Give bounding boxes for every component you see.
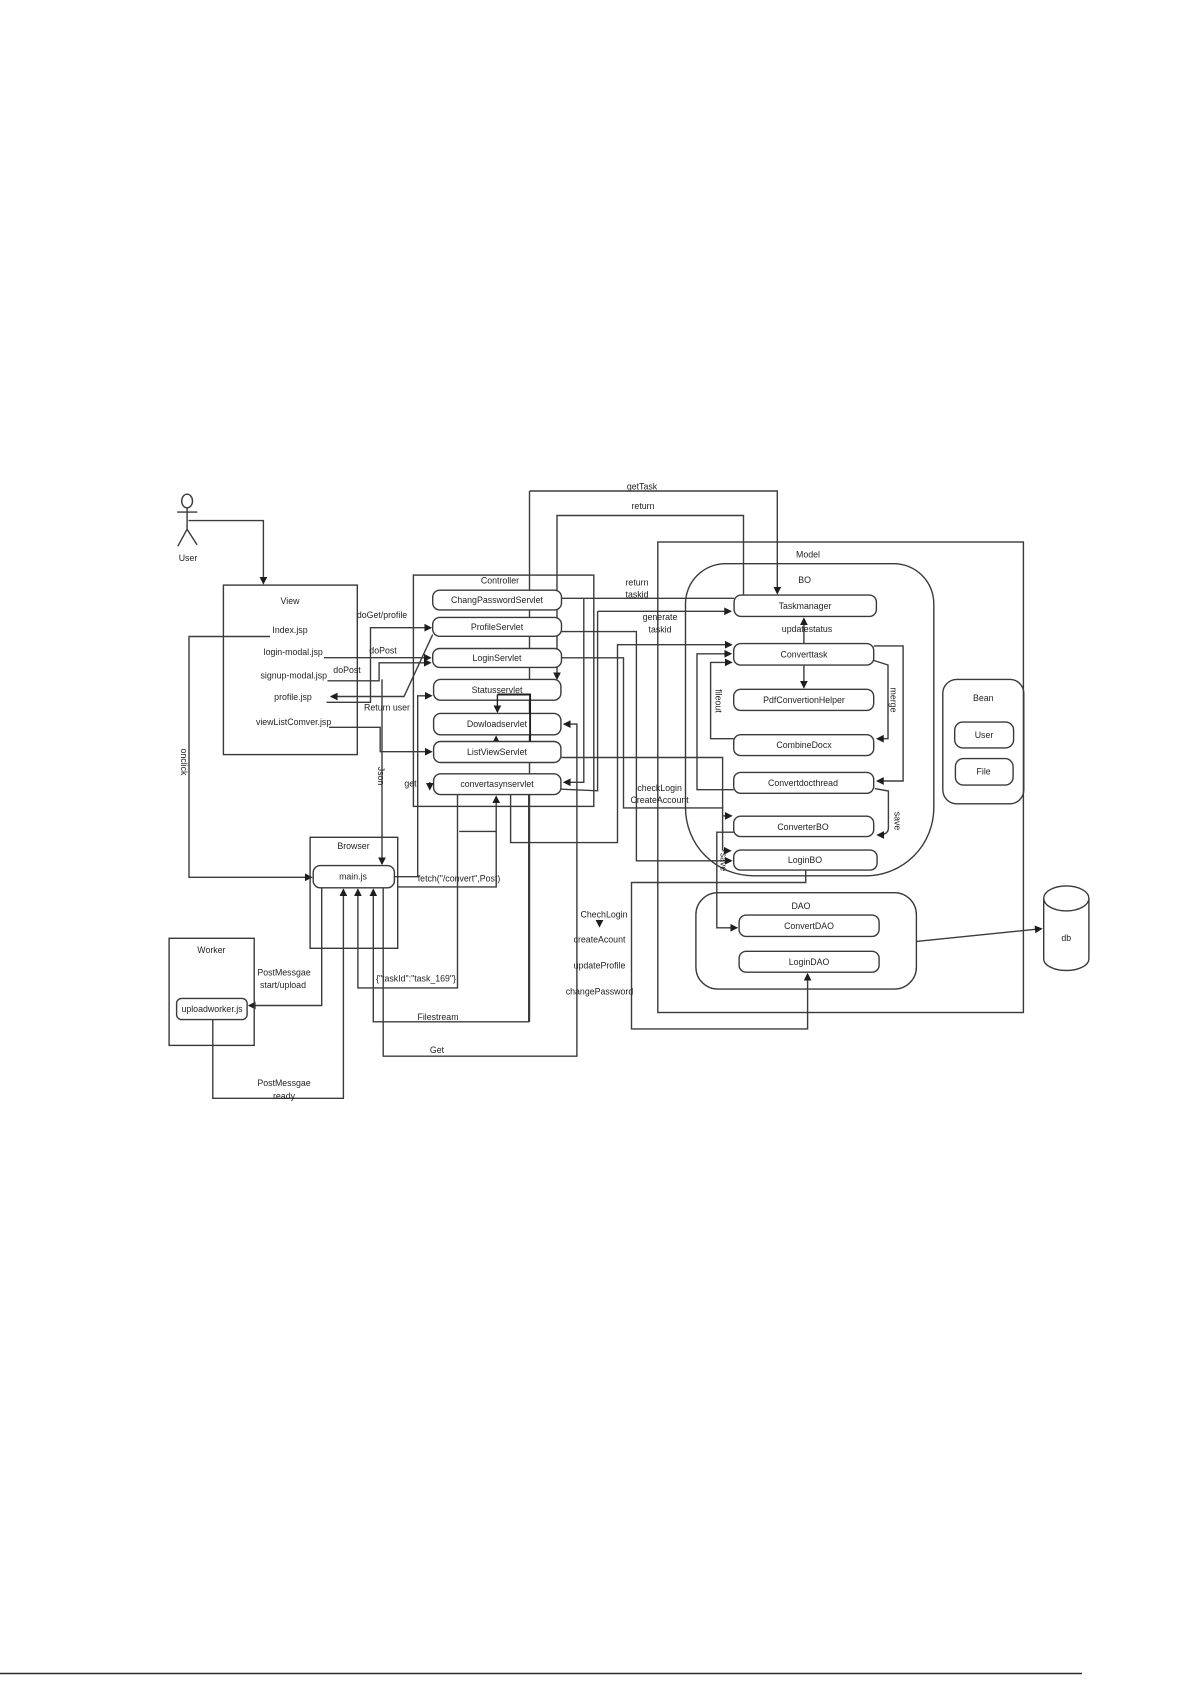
box ListViewServlet <box>434 742 561 763</box>
svg-text:PdfConvertionHelper: PdfConvertionHelper <box>763 695 845 705</box>
wire getTask horizontal into Taskmanager <box>530 491 778 594</box>
box Dowloadservlet <box>434 713 561 734</box>
wire stub arrow at convertasynservlet bottom-left <box>429 782 431 790</box>
svg-text:Dowloadservlet: Dowloadservlet <box>467 719 528 729</box>
bottom page line <box>0 1673 1082 1675</box>
svg-text:doPost: doPost <box>333 665 361 675</box>
svg-text:checkLogin: checkLogin <box>637 783 682 793</box>
wire ConvertTask to PdfConvertionHelper <box>803 665 805 687</box>
wire Json down into main.js top <box>381 679 383 864</box>
wire Statusservlet to Dowloadservlet arrow <box>496 695 498 713</box>
svg-text:DAO: DAO <box>791 901 810 911</box>
svg-text:doPost: doPost <box>369 646 397 656</box>
svg-text:ChechLogin: ChechLogin <box>581 910 628 920</box>
wire doPost from login-modal.jsp to LoginServlet <box>324 657 431 659</box>
svg-text:Converttask: Converttask <box>781 650 829 660</box>
svg-text:start/upload: start/upload <box>260 980 306 990</box>
svg-text:ProfileServlet: ProfileServlet <box>471 622 524 632</box>
box User (Bean) <box>955 722 1014 748</box>
wire ListViewServlet to BO verticals <box>562 758 723 851</box>
box PdfConvertionHelper <box>734 689 874 710</box>
svg-text:User: User <box>179 553 198 563</box>
wire fetch stub <box>459 830 496 832</box>
box ConvertDAO <box>739 915 879 936</box>
wire Get main.js to Dowloadservlet <box>383 724 577 1056</box>
wire Convertdocthread to ConvertTask loop <box>697 654 734 790</box>
svg-text:Statusservlet: Statusservlet <box>472 685 523 695</box>
wire doGet/profile from profile.jsp to ProfileServlet <box>327 628 432 703</box>
svg-text:Worker: Worker <box>197 945 225 955</box>
svg-text:convertasynservlet: convertasynservlet <box>460 779 534 789</box>
svg-text:ChangPasswordServlet: ChangPasswordServlet <box>451 595 543 605</box>
box Convertdocthread <box>734 772 874 793</box>
wire ChechLogin small arrow <box>599 921 601 927</box>
box ChangPasswordServlet <box>433 590 562 610</box>
box Controller <box>413 575 593 806</box>
box Bean <box>943 679 1024 803</box>
svg-text:db: db <box>1061 933 1071 943</box>
svg-text:Bean: Bean <box>973 693 994 703</box>
box Statusservlet <box>434 679 561 700</box>
wire ConvertTask to Convertdocthread <box>874 646 903 781</box>
wire save ConverterBO to ConvertDAO <box>717 832 737 928</box>
wire save Convertdocthread to ConverterBO <box>875 789 889 835</box>
wire onclick Index.jsp to main.js <box>189 637 312 878</box>
wire arrow into LoginBO top-left <box>723 850 731 852</box>
svg-text:CombineDocx: CombineDocx <box>776 740 832 750</box>
box Taskmanager <box>734 595 876 616</box>
svg-text:merge: merge <box>889 688 899 713</box>
svg-text:profile.jsp: profile.jsp <box>274 692 312 702</box>
wire return from Taskmanager to Statusservlet <box>557 516 744 680</box>
svg-text:save: save <box>893 812 903 831</box>
wire get main.js to Statusservlet <box>394 696 431 877</box>
wire fileout CombineDocx to ConvertTask <box>711 662 734 738</box>
box DAO <box>696 893 917 989</box>
wire LoginServlet across to BO <box>562 658 724 808</box>
svg-text:return: return <box>626 578 649 588</box>
svg-text:updatestatus: updatestatus <box>782 624 833 634</box>
svg-text:LoginBO: LoginBO <box>788 855 822 865</box>
box Worker <box>169 938 254 1045</box>
box ProfileServlet <box>433 617 562 636</box>
svg-text:Return user: Return user <box>364 703 410 713</box>
wire return-taskid / generate-taskid Taskmanager to convertasynservlet <box>561 611 597 791</box>
svg-text:main.js: main.js <box>339 872 367 882</box>
box Browser <box>310 837 398 948</box>
svg-text:File: File <box>977 767 991 777</box>
svg-text:ListViewServlet: ListViewServlet <box>467 747 528 757</box>
box LoginDAO <box>739 951 879 972</box>
wire merge ConvertTask to CombineDocx <box>872 660 888 739</box>
svg-text:fetch("/convert",Post): fetch("/convert",Post) <box>418 874 501 884</box>
svg-text:PostMessgae: PostMessgae <box>257 968 310 978</box>
box CombineDocx <box>734 735 874 756</box>
svg-text:{"taskId":"task_169"}: {"taskId":"task_169"} <box>376 974 456 984</box>
box Converttask <box>734 644 874 666</box>
wire User to View <box>189 521 264 584</box>
wire fetch main.js to convertasynservlet <box>397 797 496 887</box>
svg-text:createAcount: createAcount <box>574 935 626 945</box>
svg-text:Filestream: Filestream <box>417 1012 458 1022</box>
box uploadworker.js <box>177 998 248 1019</box>
svg-text:ConvertDAO: ConvertDAO <box>784 921 834 931</box>
svg-text:get: get <box>404 779 417 789</box>
wire Return user from ProfileServlet to profile.jsp <box>331 635 433 697</box>
svg-text:onclick: onclick <box>179 749 189 776</box>
svg-text:CreateAccount: CreateAccount <box>630 795 689 805</box>
box main.js <box>313 866 394 888</box>
box File (Bean) <box>955 759 1013 786</box>
svg-text:Taskmanager: Taskmanager <box>779 601 832 611</box>
db cylinder <box>1044 886 1089 971</box>
svg-text:login-modal.jsp: login-modal.jsp <box>264 647 323 657</box>
actor User <box>177 494 197 546</box>
wire PostMessgae ready uploadworker.js to main.js <box>213 890 344 1099</box>
wire arrow into ConverterBO top-left <box>723 815 732 817</box>
svg-text:save: save <box>719 853 729 872</box>
box convertasynservlet <box>434 774 561 795</box>
wire ChangPasswordServlet to convertasynservlet right <box>562 597 735 599</box>
box Model <box>658 542 1024 1013</box>
svg-text:PostMessgae: PostMessgae <box>257 1078 310 1088</box>
box BO <box>686 564 934 876</box>
svg-text:ready: ready <box>273 1091 296 1101</box>
svg-text:LoginDAO: LoginDAO <box>789 957 830 967</box>
wire getTask vertical long <box>529 491 531 1022</box>
box LoginServlet <box>433 649 562 668</box>
wire updatestatus ConvertTask to Taskmanager <box>803 619 805 644</box>
box ConverterBO <box>734 816 874 836</box>
svg-text:return: return <box>632 501 655 511</box>
svg-text:Convertdocthread: Convertdocthread <box>768 778 838 788</box>
svg-text:User: User <box>975 730 994 740</box>
wire convertasynservlet to ConvertTask <box>511 645 732 843</box>
wire dark loop Statusservlet to ListViewServlet <box>497 695 530 742</box>
svg-text:viewListComver.jsp: viewListComver.jsp <box>256 717 331 727</box>
svg-text:View: View <box>281 596 301 606</box>
svg-text:Get: Get <box>430 1045 445 1055</box>
svg-text:ConverterBO: ConverterBO <box>777 822 828 832</box>
svg-text:getTask: getTask <box>627 482 658 492</box>
svg-text:updateProfile: updateProfile <box>574 961 626 971</box>
svg-text:generate: generate <box>643 612 678 622</box>
wire DAO to db <box>916 929 1041 942</box>
svg-text:BO: BO <box>798 575 811 585</box>
wire PostMessgae start/upload main.js to uploadworker.js <box>249 888 322 1006</box>
svg-text:doGet/profile: doGet/profile <box>357 610 407 620</box>
wire viewListComver.jsp to ListViewServlet <box>329 727 432 751</box>
svg-text:changePassword: changePassword <box>566 987 634 997</box>
svg-text:Model: Model <box>796 550 820 560</box>
svg-text:Index.jsp: Index.jsp <box>272 625 307 635</box>
wire Filestream convertasynservlet to main.js <box>373 795 528 1022</box>
wire doPost from signup-modal.jsp to LoginServlet <box>327 663 430 681</box>
wire LoginBO to LoginDAO <box>632 870 808 1029</box>
wire connector Dowloadservlet to ListViewServlet <box>495 737 497 742</box>
svg-text:uploadworker.js: uploadworker.js <box>181 1004 243 1014</box>
wire taskId response convertasynservlet to main.js <box>358 795 458 988</box>
svg-text:LoginServlet: LoginServlet <box>473 653 522 663</box>
box View <box>223 585 357 755</box>
svg-text:Json: Json <box>376 767 386 786</box>
box LoginBO <box>734 850 877 870</box>
svg-text:Browser: Browser <box>337 841 369 851</box>
svg-text:fileout: fileout <box>714 689 724 713</box>
svg-text:taskid: taskid <box>626 590 649 600</box>
svg-text:taskid: taskid <box>649 625 672 635</box>
svg-text:signup-modal.jsp: signup-modal.jsp <box>261 670 328 680</box>
svg-text:Controller: Controller <box>481 576 519 586</box>
wire ProfileServlet to LoginBO <box>562 632 732 861</box>
